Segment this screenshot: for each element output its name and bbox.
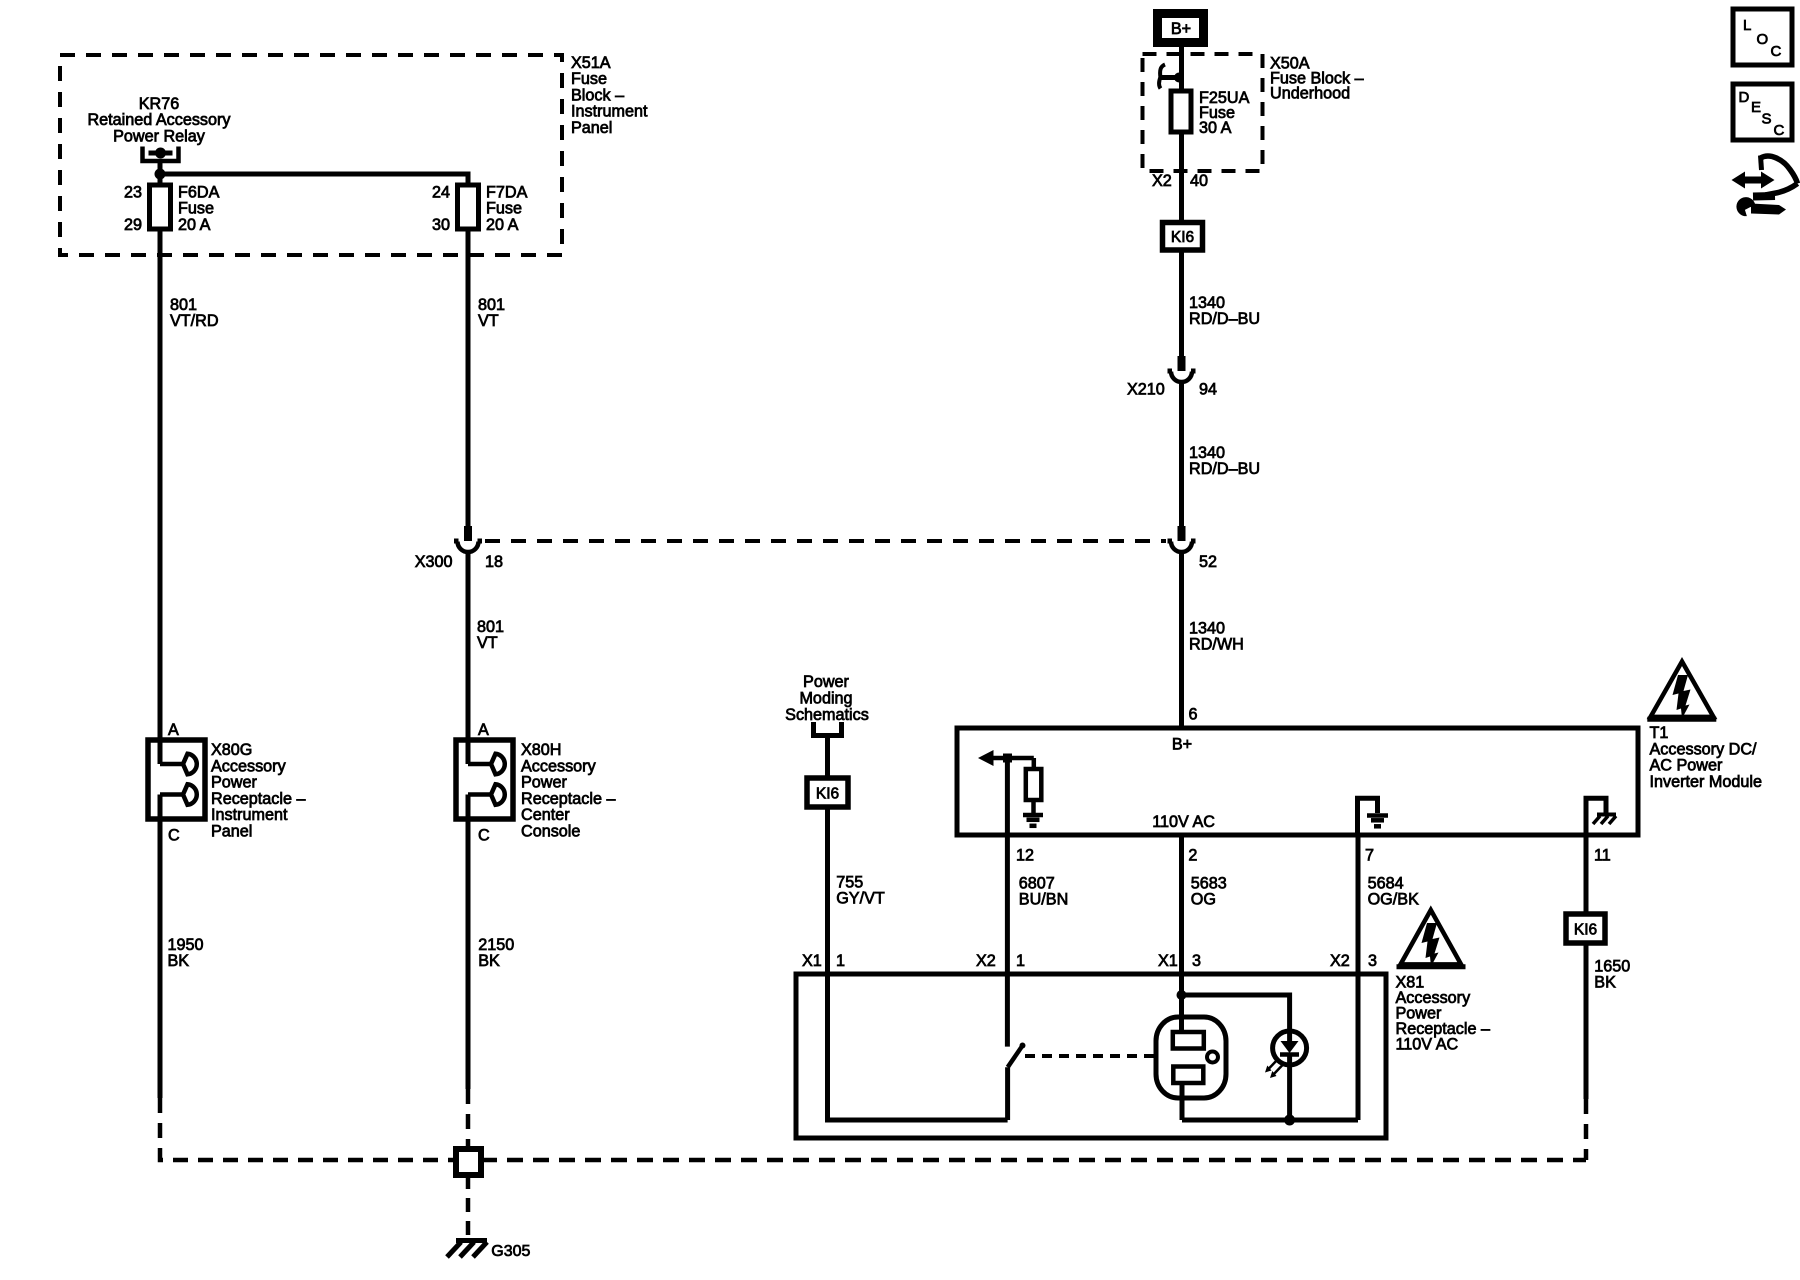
- svg-text:C: C: [168, 827, 180, 845]
- outlet face symbol internal X81: [1156, 974, 1226, 1120]
- label 3 pin of X81: [1192, 952, 1201, 970]
- wire bracket to KI6 middle: [825, 736, 830, 779]
- label X1 pin of X81 left: [802, 952, 822, 970]
- svg-text:11: 11: [1594, 847, 1611, 865]
- label 801 VT lower: [477, 618, 504, 652]
- label T1 Accessory DC/AC Power Inverter Module: [1650, 724, 1762, 791]
- svg-text:X80G: X80G: [211, 741, 252, 759]
- svg-text:Accessory: Accessory: [211, 757, 287, 775]
- svg-text:3: 3: [1192, 952, 1201, 970]
- svg-text:GY/VT: GY/VT: [836, 890, 885, 908]
- warning triangle T1: [1647, 662, 1716, 720]
- icon LOC box: [1733, 9, 1792, 65]
- svg-text:110V AC: 110V AC: [1152, 813, 1215, 831]
- svg-text:7: 7: [1365, 847, 1374, 865]
- label pin 23: [124, 184, 142, 202]
- svg-text:X2: X2: [976, 952, 996, 970]
- label 2150 BK: [478, 936, 514, 970]
- svg-text:X1: X1: [1158, 952, 1178, 970]
- wire X300 to X80H 801 VT: [466, 554, 471, 740]
- wire bottom rail right internal X81: [1182, 1118, 1358, 1123]
- svg-text:12: 12: [1016, 847, 1034, 865]
- chassis ground symbol internal T1 pin 11: [1586, 798, 1616, 835]
- label X1 pin of X81: [1158, 952, 1178, 970]
- label 18: [485, 553, 503, 571]
- node junction on arrow line: [1003, 754, 1012, 763]
- svg-text:B+: B+: [1171, 20, 1191, 38]
- svg-text:40: 40: [1190, 172, 1208, 190]
- wire KI6 to X81 pin X1-1 755 GY/VT: [825, 807, 830, 974]
- wire dashed splice to G305: [466, 1175, 471, 1240]
- node junction at relay output: [155, 169, 166, 180]
- connector splice 52 inline connector: [1168, 526, 1196, 552]
- relay KR76 contact symbol: [143, 147, 179, 162]
- svg-text:Accessory DC/: Accessory DC/: [1650, 740, 1758, 758]
- svg-text:BU/BN: BU/BN: [1019, 891, 1068, 909]
- label X50A Fuse Block - Underhood: [1270, 55, 1364, 103]
- label 801 VT/RD: [170, 296, 219, 330]
- label 52: [1199, 553, 1217, 571]
- svg-text:Inverter Module: Inverter Module: [1650, 773, 1762, 791]
- svg-text:29: 29: [124, 216, 142, 234]
- label X80G Accessory Power Receptacle - Instrument Panel: [211, 741, 306, 841]
- svg-text:KI6: KI6: [1171, 229, 1194, 246]
- label 801 VT upper: [478, 296, 505, 330]
- svg-text:C: C: [1771, 43, 1782, 60]
- wire dashed 1650 BK to ground bus: [1584, 1099, 1589, 1160]
- switch plug-detect internal X81: [1007, 974, 1025, 1120]
- svg-text:Power Relay: Power Relay: [113, 127, 206, 145]
- connector X210 pin 94 inline connector: [1168, 356, 1196, 382]
- svg-text:1: 1: [1016, 952, 1025, 970]
- resistor internal T1: [1026, 758, 1042, 813]
- connector X300 pin 18 inline connector: [454, 526, 482, 552]
- label 40: [1190, 172, 1208, 190]
- wire dashed 2150 BK to splice: [466, 1089, 471, 1149]
- label X2 pin of X81: [976, 952, 996, 970]
- svg-text:Schematics: Schematics: [785, 706, 869, 724]
- svg-text:X1: X1: [802, 952, 822, 970]
- svg-text:E: E: [1751, 99, 1761, 116]
- node splice ground bus: [456, 1149, 481, 1175]
- label F25UA Fuse 30 A: [1199, 89, 1250, 137]
- receptacle X81 Accessory Power Receptacle 110V AC box: [796, 974, 1386, 1138]
- label 5684 OG/BK: [1368, 875, 1419, 909]
- svg-text:Underhood: Underhood: [1270, 85, 1350, 103]
- label X210: [1127, 381, 1165, 399]
- icon DESC box: [1733, 84, 1792, 140]
- svg-text:Center: Center: [521, 806, 570, 824]
- label 12: [1016, 847, 1034, 865]
- fuse F6DA 20 A: [150, 185, 171, 229]
- ground symbol internal T1 left: [1023, 815, 1043, 826]
- label pin C of X80H: [478, 827, 490, 845]
- wire T1 pin 7 to X81 X2-3 5684 OG/BK: [1356, 835, 1361, 974]
- svg-text:Moding: Moding: [799, 690, 852, 708]
- svg-text:BK: BK: [1594, 974, 1616, 992]
- module T1 Accessory DC/AC Power Inverter Module box: [957, 728, 1638, 835]
- label 1950 BK: [168, 936, 204, 970]
- wire T1 pin 12 internal: [1005, 758, 1010, 835]
- svg-text:VT: VT: [477, 634, 498, 652]
- label KR76 Retained Accessory Power Relay: [87, 95, 231, 145]
- svg-text:1: 1: [836, 952, 845, 970]
- warning triangle X81: [1397, 910, 1466, 967]
- label X2 pin of X81 right: [1330, 952, 1350, 970]
- wire X81 X1-1 internal to bottom rail: [828, 974, 1008, 1120]
- svg-text:Power: Power: [521, 774, 567, 792]
- label X51A Fuse Block - Instrument Panel: [571, 54, 648, 137]
- svg-text:C: C: [1774, 122, 1785, 139]
- off-page connector bracket Power Moding: [814, 722, 842, 736]
- label Power Moding Schematics: [785, 673, 869, 724]
- svg-text:Receptacle –: Receptacle –: [521, 790, 616, 808]
- wire dashed mechanical link switch to outlet: [1025, 1054, 1156, 1058]
- svg-text:3: 3: [1368, 952, 1377, 970]
- svg-text:L: L: [1743, 17, 1751, 34]
- svg-text:A: A: [168, 721, 179, 739]
- wire KI6 to X210 circuit 1340 RD/D-BU: [1179, 250, 1184, 356]
- svg-text:94: 94: [1199, 381, 1217, 399]
- svg-text:30 A: 30 A: [1199, 119, 1232, 137]
- label pin 30: [432, 216, 450, 234]
- wire T1 pin 2 to X81 X1-3 5683 OG: [1179, 835, 1184, 974]
- label B+ internal: [1172, 736, 1192, 754]
- label F6DA Fuse 20 A: [178, 184, 220, 234]
- label 6: [1189, 706, 1198, 724]
- svg-text:18: 18: [485, 553, 503, 571]
- connector X80G Accessory Power Receptacle - Instrument Panel: [148, 740, 205, 819]
- svg-text:VT/RD: VT/RD: [170, 312, 219, 330]
- icon double arrow with outline arrow and wrench: [1732, 156, 1798, 217]
- label 3 pin of X81 right: [1368, 952, 1377, 970]
- svg-text:2: 2: [1188, 847, 1197, 865]
- svg-text:S: S: [1762, 111, 1772, 128]
- fuse F7DA 20 A: [458, 185, 479, 229]
- label pin A of X80G: [168, 721, 179, 739]
- wire F6DA to X80G circuit 801 VT/RD: [158, 229, 163, 740]
- wire T1 pin 12 to X81 X2-1 6807 BU/BN: [1005, 835, 1010, 974]
- wire relay output to junction: [158, 161, 163, 185]
- label X300: [415, 553, 453, 571]
- svg-text:RD/D–BU: RD/D–BU: [1189, 460, 1260, 478]
- node junction X1-3 wire: [1177, 990, 1187, 1000]
- wire X210 to splice 52 1340 RD/D-BU: [1179, 384, 1184, 526]
- junction block KI6 middle: [807, 778, 848, 807]
- svg-text:RD/D–BU: RD/D–BU: [1189, 310, 1260, 328]
- label 1340 RD/D-BU upper: [1189, 294, 1260, 328]
- label 1340 RD/WH: [1189, 620, 1244, 654]
- svg-text:52: 52: [1199, 553, 1217, 571]
- svg-text:X210: X210: [1127, 381, 1165, 399]
- wire dashed ground bus right segment: [481, 1158, 1586, 1163]
- svg-text:B+: B+: [1172, 736, 1192, 754]
- svg-text:G305: G305: [491, 1243, 530, 1260]
- svg-text:O: O: [1757, 31, 1769, 48]
- svg-text:BK: BK: [478, 952, 500, 970]
- label pin 29: [124, 216, 142, 234]
- svg-text:Panel: Panel: [571, 119, 612, 137]
- label 1650 BK: [1594, 958, 1630, 992]
- fuse block X51A dashed enclosure: [60, 55, 562, 255]
- svg-text:24: 24: [432, 184, 450, 202]
- svg-text:X2: X2: [1152, 172, 1172, 190]
- wire F25UA to KI6: [1179, 132, 1184, 223]
- label G305: [491, 1243, 530, 1260]
- svg-text:X80H: X80H: [521, 741, 562, 759]
- label 7: [1365, 847, 1374, 865]
- svg-text:OG: OG: [1191, 891, 1216, 909]
- signal arrow internal T1: [978, 750, 1034, 766]
- svg-text:KI6: KI6: [816, 786, 839, 803]
- wire X80H ground 2150 BK: [466, 819, 471, 1089]
- junction block KI6 right: [1566, 914, 1605, 943]
- wire T1 pin 11 to KI6 right: [1584, 835, 1589, 914]
- wire KI6 right down 1650 BK: [1584, 943, 1589, 1099]
- wire dashed 1950 BK to ground bus: [160, 1098, 456, 1160]
- ground symbol internal T1 pin 7: [1358, 798, 1389, 835]
- svg-text:110V AC: 110V AC: [1396, 1036, 1459, 1054]
- svg-text:Instrument: Instrument: [211, 806, 288, 824]
- label pin A of X80H: [478, 721, 489, 739]
- LED indicator internal X81: [1265, 1031, 1307, 1120]
- wire F7DA to X300 801 VT: [466, 229, 471, 526]
- wire dashed X300 to X210 splice line: [485, 539, 1166, 543]
- power symbol B+: [1158, 14, 1204, 43]
- svg-text:X2: X2: [1330, 952, 1350, 970]
- svg-text:T1: T1: [1650, 724, 1669, 742]
- svg-text:D: D: [1739, 89, 1750, 106]
- wire 52 to T1 pin 6 1340 RD/WH: [1179, 554, 1184, 728]
- label 1 pin of X81: [1016, 952, 1025, 970]
- junction block KI6 top: [1163, 223, 1203, 251]
- label F7DA Fuse 20 A: [486, 184, 528, 234]
- svg-text:20 A: 20 A: [486, 216, 519, 234]
- svg-text:30: 30: [432, 216, 450, 234]
- label X80H Accessory Power Receptacle - Center Console: [521, 741, 616, 841]
- svg-text:Receptacle –: Receptacle –: [211, 790, 306, 808]
- fuse F25UA 30 A: [1171, 91, 1191, 132]
- connector X80H Accessory Power Receptacle - Center Console: [456, 740, 513, 819]
- wire B+ into fuse block: [1179, 47, 1184, 91]
- wire junction to LED branch: [1182, 995, 1290, 1031]
- svg-text:6: 6: [1189, 706, 1198, 724]
- svg-text:23: 23: [124, 184, 142, 202]
- svg-text:20 A: 20 A: [178, 216, 211, 234]
- svg-text:RD/WH: RD/WH: [1189, 636, 1244, 654]
- svg-text:Console: Console: [521, 823, 580, 841]
- svg-text:C: C: [478, 827, 490, 845]
- label 755 GY/VT: [836, 874, 885, 908]
- label 94: [1199, 381, 1217, 399]
- svg-text:KI6: KI6: [1574, 922, 1597, 939]
- svg-text:Accessory: Accessory: [521, 757, 597, 775]
- node junction LED to bottom rail: [1284, 1115, 1295, 1126]
- svg-text:OG/BK: OG/BK: [1368, 891, 1419, 909]
- svg-text:AC Power: AC Power: [1650, 757, 1723, 775]
- label 5683 OG: [1191, 875, 1227, 909]
- label 110V AC: [1152, 813, 1215, 831]
- label 1 pin of X81 left: [836, 952, 845, 970]
- svg-text:VT: VT: [478, 312, 499, 330]
- ground G305 chassis ground symbol: [447, 1241, 487, 1258]
- svg-text:Panel: Panel: [211, 823, 252, 841]
- svg-text:Power: Power: [803, 673, 849, 691]
- label 11: [1594, 847, 1611, 865]
- wire X80G ground 1950 BK: [158, 819, 163, 1098]
- label 6807 BU/BN: [1019, 875, 1068, 909]
- label 2: [1188, 847, 1197, 865]
- wire horizontal relay bus to F7DA: [160, 174, 468, 185]
- svg-text:A: A: [478, 721, 489, 739]
- label X81 Accessory Power Receptacle - 110V AC: [1396, 974, 1491, 1054]
- svg-text:Power: Power: [211, 774, 257, 792]
- wire X81 X2-3 internal: [1356, 974, 1361, 1120]
- label pin 24: [432, 184, 450, 202]
- label X2: [1152, 172, 1172, 190]
- fuse block X50A dashed enclosure: [1143, 54, 1263, 171]
- label pin C of X80G: [168, 827, 180, 845]
- svg-text:BK: BK: [168, 952, 190, 970]
- svg-text:X300: X300: [415, 553, 453, 571]
- label 1340 RD/D-BU lower: [1189, 444, 1260, 478]
- fusible element hook symbol: [1159, 65, 1184, 89]
